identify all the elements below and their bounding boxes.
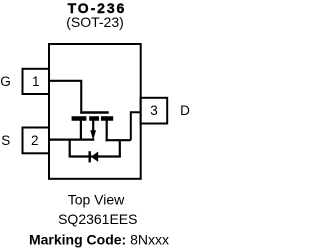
pin 3 box <box>141 98 168 124</box>
wire gate lead from pin 1 <box>49 81 81 114</box>
svg-text:2: 2 <box>31 133 39 148</box>
pin 1 box <box>23 69 50 94</box>
svg-text:Marking Code: 8Nxxx: Marking Code: 8Nxxx <box>29 231 169 247</box>
mosfet Q1 source channel bar <box>72 116 87 121</box>
wire drain lead to pin 3 <box>131 112 141 140</box>
wire source contact stub <box>80 119 82 140</box>
svg-text:G: G <box>0 74 11 89</box>
diode D1 body diode triangle <box>91 152 98 162</box>
svg-text:(SOT-23): (SOT-23) <box>66 14 124 30</box>
wire source rail from pin 2 <box>49 139 94 141</box>
mosfet Q1 body arrow <box>92 119 94 132</box>
wire drain rail <box>106 139 131 141</box>
pin 2 box <box>23 128 50 154</box>
svg-text:1: 1 <box>32 74 40 89</box>
svg-text:3: 3 <box>150 103 158 118</box>
package body outline <box>49 44 141 179</box>
mosfet Q1 body channel bar <box>89 116 99 121</box>
svg-text:Top View: Top View <box>68 192 125 208</box>
mosfet Q1 drain channel bar <box>101 116 113 121</box>
svg-text:SQ2361EES: SQ2361EES <box>58 211 137 227</box>
mosfet Q1 gate bar <box>80 111 109 114</box>
svg-text:D: D <box>180 103 190 118</box>
svg-text:S: S <box>1 133 10 148</box>
diode D1 body diode cathode bar <box>88 151 90 162</box>
wire drain contact stub <box>106 119 108 141</box>
wire diode branch <box>70 139 120 157</box>
